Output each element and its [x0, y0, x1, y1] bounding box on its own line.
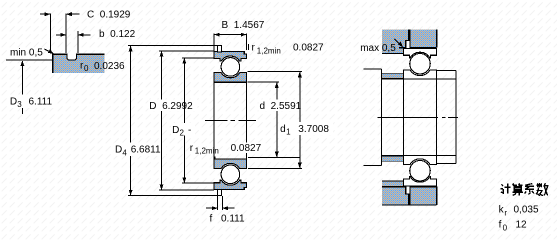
bore cylinder edge lines: [214, 82, 247, 159]
label r 1,2min 0.0827 (bottom left): [190, 143, 266, 160]
inner ring (top): [214, 73, 247, 83]
svg-text:f: f: [499, 219, 502, 230]
svg-text:3: 3: [17, 100, 22, 109]
svg-text:12: 12: [516, 219, 528, 230]
svg-text:0.0827: 0.0827: [293, 42, 324, 53]
ball (top): [221, 58, 240, 77]
label min 0,5 with leader arrow: [10, 47, 54, 58]
dimension d 2.5591: [248, 82, 306, 157]
svg-text:2: 2: [180, 129, 185, 138]
svg-text:1,2min: 1,2min: [257, 47, 281, 56]
dimension C 0.1929: [40, 10, 131, 54]
dimension D 6.2992: [148, 51, 214, 190]
dimension D3 6.111: [6, 60, 55, 114]
svg-text:6.111: 6.111: [29, 96, 53, 107]
svg-text:1,2min: 1,2min: [195, 147, 219, 156]
svg-text:f: f: [210, 214, 213, 225]
svg-text:0.0827: 0.0827: [231, 143, 262, 154]
svg-text:1: 1: [286, 128, 291, 137]
svg-text:0: 0: [84, 64, 89, 73]
label r 1,2min 0.0827 (top right): [248, 42, 324, 55]
svg-text:6.6811: 6.6811: [131, 145, 161, 156]
centerline: [205, 120, 256, 122]
outer ring (top): [214, 52, 247, 61]
svg-text:3.7008: 3.7008: [298, 124, 329, 135]
outer ring groove section (blue): [52, 54, 104, 73]
dimension b 0.122: [56, 29, 136, 40]
housing bottom (blue): [382, 181, 437, 205]
bearing top section (right view, white): [403, 41, 436, 79]
svg-text:D: D: [115, 145, 122, 156]
housing top (blue): [382, 29, 437, 53]
shaft abutment strip (bottom): [382, 156, 404, 162]
svg-text:d 2.5591: d 2.5591: [260, 101, 302, 112]
label f0 12: [499, 219, 527, 232]
系: [525, 184, 534, 194]
dimension f 0.111: [206, 196, 245, 225]
centerline (right view): [377, 117, 458, 119]
svg-text:-: -: [188, 125, 191, 136]
svg-text:C 0.1929: C 0.1929: [87, 10, 131, 21]
outer ring: [403, 48, 436, 57]
svg-text:max 0,5: max 0,5: [360, 43, 396, 54]
svg-text:r: r: [504, 209, 507, 218]
label max 0,5 with leader arrow: [360, 39, 403, 54]
算: [512, 183, 523, 195]
shaft shoulder (left): [364, 69, 382, 165]
shaft abutment strip (top): [382, 73, 404, 79]
svg-text:B 1.4567: B 1.4567: [222, 20, 265, 31]
bottom section (mirror): [214, 159, 247, 196]
svg-text:d: d: [280, 124, 286, 135]
dimension D2 (blank): [171, 58, 214, 183]
dimension D4 6.6811: [114, 46, 222, 196]
svg-text:min 0,5: min 0,5: [10, 47, 43, 58]
svg-text:D: D: [10, 96, 17, 107]
top section: [214, 46, 247, 83]
svg-text:b 0.122: b 0.122: [99, 29, 136, 40]
bearing face edge lines (right view): [403, 79, 436, 156]
ball: [410, 53, 431, 73]
svg-text:0.0236: 0.0236: [94, 61, 125, 72]
dimension d1 3.7008: [248, 72, 333, 169]
spacer sleeve (right): [437, 71, 457, 164]
svg-text:D: D: [172, 125, 179, 136]
label r0 0.0236: [80, 60, 125, 73]
snap ring: [406, 41, 410, 49]
svg-text:0,035: 0,035: [514, 204, 539, 215]
svg-text:0: 0: [503, 224, 508, 233]
svg-text:4: 4: [122, 148, 127, 157]
snap ring groove slot: [66, 14, 78, 60]
dimension B 1.4567: [214, 20, 265, 51]
计: [501, 183, 511, 193]
数: [536, 183, 548, 195]
heading 计算系数 (drawn glyphs): [501, 183, 548, 196]
svg-text:0.111: 0.111: [221, 214, 245, 225]
inner ring: [403, 70, 436, 79]
svg-text:D 6.2992: D 6.2992: [149, 101, 193, 112]
label kr 0,035: [499, 204, 539, 217]
bearing bottom section (mirror): [403, 156, 436, 194]
snap ring (top): [218, 46, 222, 52]
